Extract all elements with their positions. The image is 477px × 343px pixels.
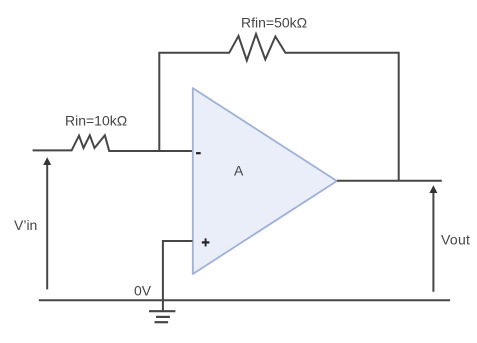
svg-text:Rfin=50kΩ: Rfin=50kΩ — [241, 15, 307, 31]
svg-text:Vout: Vout — [441, 231, 470, 247]
svg-text:V’in: V’in — [14, 217, 37, 233]
svg-text:Rin=10kΩ: Rin=10kΩ — [65, 113, 127, 129]
svg-text:0V: 0V — [134, 282, 152, 298]
svg-text:A: A — [234, 162, 244, 178]
